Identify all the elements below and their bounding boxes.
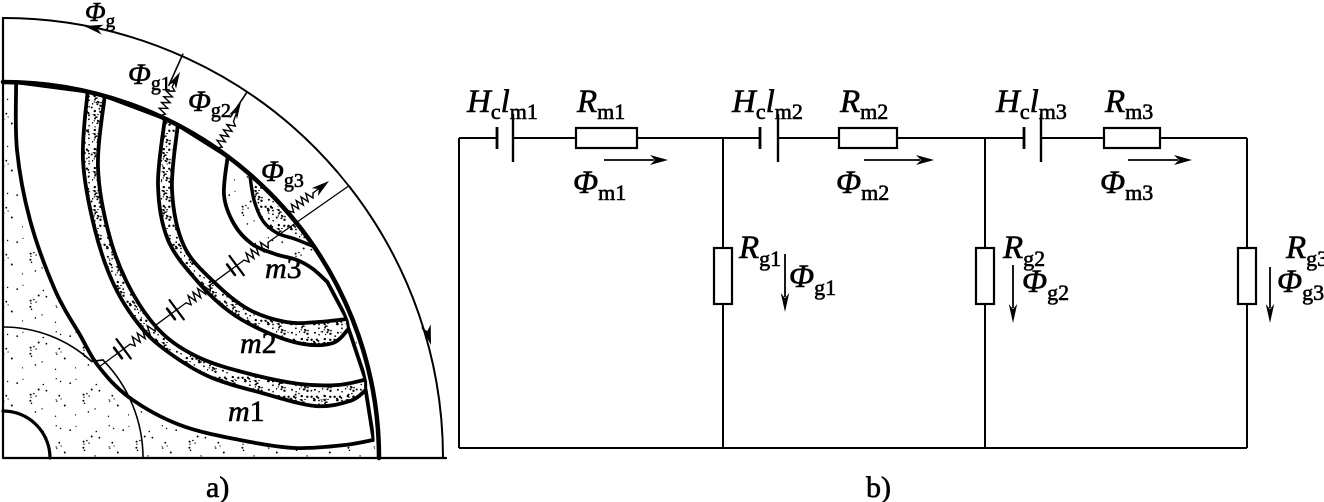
- svg-text:Hclm3: Hclm3: [995, 84, 1067, 124]
- svg-text:Φg1: Φg1: [789, 259, 836, 300]
- svg-text:b): b): [866, 471, 891, 502]
- wire: left vertical: [458, 138, 460, 448]
- svg-text:Φg2: Φg2: [188, 85, 231, 122]
- magnet barrier m3 (white band): [172, 125, 347, 323]
- magnet MMF ticks on q-axis (m3): [227, 265, 235, 275]
- magnet MMF ticks on q-axis (m1): [114, 348, 122, 358]
- air-gap zigzag and arrow PHI_g3: [289, 193, 313, 212]
- reluctance zigzag across m2: [186, 285, 210, 305]
- resistor R_g1: [714, 248, 732, 304]
- svg-text:Rm3: Rm3: [1104, 84, 1153, 124]
- magnet strip between m2 and m3 (dense stipple): [158, 119, 349, 346]
- q-axis diagonal line segments: [99, 344, 130, 367]
- flux arrow PHI_g1 (down): [784, 254, 786, 297]
- wire: right vertical: [1246, 138, 1248, 448]
- wire: branch node 2 vertical: [984, 138, 986, 448]
- step connector at q-axis in outer boundary: [337, 172, 349, 186]
- svg-text:Rg1: Rg1: [738, 230, 781, 271]
- air-gap zigzag and arrow PHI_g2: [217, 121, 235, 147]
- air-gap zigzag and arrow PHI_g1: [159, 87, 175, 116]
- wire: branch node 1 vertical: [722, 138, 724, 448]
- stator outer boundary arc, upper segment: [3, 18, 337, 172]
- svg-text:Φm1: Φm1: [573, 165, 626, 205]
- MMF source Hc*lm2 (battery): [759, 127, 762, 149]
- flux arrow PHI_m2: [864, 159, 920, 161]
- svg-text:Rm2: Rm2: [839, 84, 888, 124]
- resistor R_g2: [976, 248, 994, 304]
- flux arrow on outer arc (right side, pointing down): [421, 324, 431, 345]
- radial tick marks in air gap: [169, 54, 183, 85]
- reluctance zigzag across m1: [130, 326, 155, 346]
- left border line: [2, 18, 4, 458]
- reluctance zigzag across m3: [244, 242, 268, 262]
- svg-text:Φg3: Φg3: [261, 155, 304, 192]
- svg-text:m1: m1: [228, 395, 265, 428]
- wire: top horizontal segments: [459, 137, 497, 139]
- flux arrow PHI_m3: [1128, 159, 1178, 161]
- magnet barrier m1 (white band): [16, 82, 374, 448]
- rotor surface (thick arc): [3, 82, 379, 458]
- wire: bottom horizontal: [459, 447, 1247, 449]
- flux arrow PHI_m1: [604, 159, 654, 161]
- resistor R_m1: [576, 128, 637, 148]
- flux arrow PHI_g3 (down): [1269, 267, 1271, 308]
- rotor iron core (stippled quarter disc): [3, 82, 379, 458]
- svg-text:a): a): [206, 471, 229, 502]
- svg-text:m3: m3: [265, 252, 302, 285]
- svg-text:Φm2: Φm2: [836, 165, 889, 205]
- svg-text:m2: m2: [240, 327, 277, 360]
- rotor inner boundary arc (with jog at q-axis): [3, 327, 92, 361]
- magnet MMF ticks on q-axis (m2): [167, 309, 175, 320]
- svg-text:Hclm1: Hclm1: [466, 84, 538, 124]
- magnet strip between m1 and m2 (dense stipple): [83, 92, 366, 407]
- left figure a): quarter cross-section of PM machine: [3, 0, 446, 502]
- shaft arc: [3, 411, 50, 458]
- resistor R_m3: [1104, 128, 1160, 148]
- resistor R_m2: [839, 128, 897, 148]
- MMF source Hc*lm3 (battery): [1023, 127, 1026, 149]
- flux arrow PHI_g2 (down): [1012, 265, 1014, 308]
- flux arrow PHI_g on outer arc (top, pointing left): [84, 25, 104, 35]
- magnet barrier m2 (white band): [98, 96, 366, 385]
- MMF source Hc*lm1 (battery): [496, 127, 499, 149]
- svg-text:Hclm2: Hclm2: [731, 84, 803, 124]
- svg-text:Φm3: Φm3: [1100, 165, 1153, 205]
- iron pocket near q-axis surface: [250, 174, 314, 247]
- white channel along rotor surface at band ends: [325, 269, 380, 458]
- svg-text:Rm1: Rm1: [576, 84, 625, 124]
- right figure b): magnetic equivalent circuit: [459, 138, 1247, 448]
- svg-text:Φg2: Φg2: [1022, 264, 1069, 305]
- svg-text:Φg1: Φg1: [128, 58, 171, 95]
- resistor R_g3: [1238, 248, 1256, 304]
- bottom border line: [3, 457, 446, 459]
- stator outer boundary arc, lower segment: [349, 186, 443, 458]
